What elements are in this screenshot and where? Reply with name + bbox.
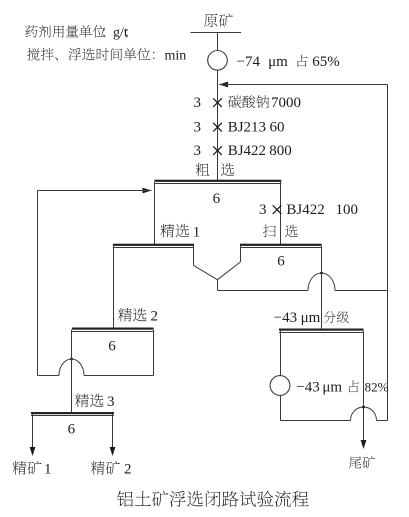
svg-text:65%: 65% — [312, 54, 340, 70]
legend text line 2: agitation flotation time unit min — [27, 48, 40, 61]
cleaner3 left wall with arrow to concentrate 1 — [32, 414, 34, 448]
svg-text:BJ422: BJ422 — [228, 143, 266, 159]
svg-text:60: 60 — [270, 120, 285, 136]
svg-text:6: 6 — [277, 254, 285, 270]
svg-text:g/t: g/t — [113, 26, 128, 41]
wire: cleaner2 concentrate down to cleaner3 — [71, 330, 73, 413]
cleaner2 bottom line with outlet dome — [38, 375, 60, 377]
node: raw ore label 原矿 — [204, 14, 218, 27]
label: scavenger 扫选 — [263, 225, 276, 238]
svg-text:6: 6 — [108, 339, 116, 355]
classifier left wall — [280, 330, 282, 421]
wire: scavenger tails down to classifier — [321, 246, 323, 329]
svg-text:2: 2 — [124, 462, 132, 478]
svg-text:100: 100 — [336, 202, 359, 218]
cleaner1 cell left wall / concentrate wire down — [113, 246, 115, 330]
svg-text:800: 800 — [269, 143, 292, 159]
svg-text:6: 6 — [68, 422, 76, 438]
cleaner1 right wall and chute — [193, 246, 195, 266]
scavenger cell top double line — [240, 244, 322, 246]
svg-text:μm: μm — [322, 380, 342, 396]
svg-text:μm: μm — [268, 54, 288, 70]
grinding circle on feed line — [208, 51, 228, 71]
legend text line 1: reagent dosage unit g/t — [25, 25, 37, 37]
cleaner2 cell top double line — [72, 328, 154, 330]
svg-text:82%: 82% — [365, 380, 389, 395]
label: cleaner3 精选 3 — [75, 394, 89, 408]
cleaner1 cell top double line — [113, 244, 194, 246]
wire: feed vertical from raw ore to rougher — [217, 33, 219, 181]
svg-text:7000: 7000 — [271, 95, 301, 111]
label: cleaner1 精选 1 — [160, 224, 174, 238]
classifier bottom line with hop — [281, 420, 351, 422]
rougher cell left wall — [154, 182, 156, 244]
svg-text:μm: μm — [301, 310, 321, 326]
svg-text:3: 3 — [107, 394, 115, 410]
svg-text:3: 3 — [194, 120, 202, 136]
svg-text:BJ422: BJ422 — [286, 202, 324, 218]
label: cleaner2 精选 2 — [118, 308, 132, 322]
rougher cell top double line — [154, 180, 281, 182]
svg-text:BJ213: BJ213 — [228, 120, 266, 136]
node: tailings label 尾矿 — [349, 457, 361, 469]
svg-text:1: 1 — [44, 462, 52, 478]
cleaner2 right wall — [153, 330, 155, 376]
svg-text:−43: −43 — [274, 310, 297, 326]
scavenger bottom launder line with hop — [218, 290, 309, 292]
node: concentrate 1 label 精矿 1 — [12, 461, 26, 475]
caption: bauxite flotation closed-circuit test flowsheet — [117, 491, 133, 507]
svg-text:1: 1 — [193, 224, 201, 240]
cleaner3 right wall with arrow to concentrate 2 — [112, 414, 114, 448]
rougher cell right wall — [280, 182, 282, 244]
scavenger left wall and chute — [240, 246, 242, 262]
label: rougher 粗选 — [196, 163, 210, 176]
classifier box top double line — [279, 329, 364, 331]
svg-text:3: 3 — [194, 143, 202, 159]
svg-text:6: 6 — [213, 191, 221, 207]
raw ore underline — [191, 32, 242, 34]
cleaner3 cell top double line — [31, 412, 114, 414]
wire: recycle return line to feed (top right) — [219, 82, 228, 88]
svg-text:min: min — [165, 49, 187, 64]
wire: cleaner tails recycle to rougher (left) — [143, 188, 152, 194]
junction stub below V — [217, 280, 219, 291]
svg-text:2: 2 — [151, 309, 159, 325]
svg-text:3: 3 — [194, 95, 202, 111]
svg-text:−74: −74 — [237, 54, 261, 70]
node: concentrate 2 label 精矿 2 — [91, 461, 105, 475]
svg-text:3: 3 — [259, 202, 267, 218]
classifier circle (cyclone) — [270, 376, 290, 396]
svg-text:−43: −43 — [296, 380, 319, 396]
wire: tailings down with arrow — [363, 331, 365, 441]
